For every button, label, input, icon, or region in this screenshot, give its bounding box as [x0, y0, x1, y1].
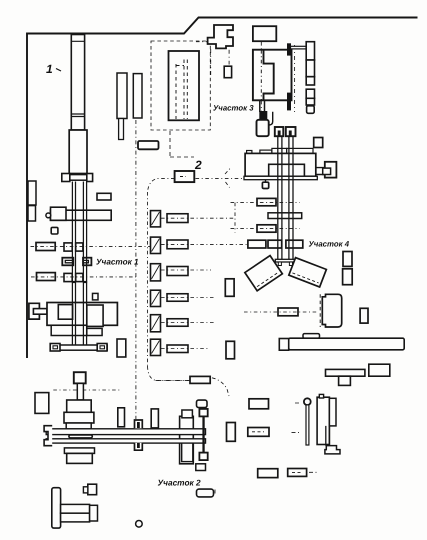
machine station row5 pallet: [167, 319, 188, 327]
drill press tier1: [67, 400, 92, 412]
small square node: [314, 138, 323, 148]
rack column cell 1: [306, 42, 314, 60]
bottom pallet row a: [248, 240, 266, 248]
slot pad between bars: [69, 435, 92, 438]
frame horizontal rail upper: [61, 504, 90, 513]
T-bar bracket right: [97, 344, 107, 352]
drill press tier4: [64, 448, 94, 454]
drill press stem: [77, 383, 83, 400]
svg-text:1: 1: [46, 62, 53, 76]
rack column cell 5: [306, 98, 314, 105]
dashed line right of machine U3: [294, 45, 296, 112]
T work table: [326, 369, 365, 376]
small square below arm: [51, 227, 58, 234]
dashed C-zone right of rails: [231, 203, 300, 233]
central machine block bump 1: [247, 151, 252, 154]
machine station row6 vertical unit: [151, 339, 161, 355]
frame end block: [90, 505, 98, 521]
svg-text:Участок 1: Участок 1: [96, 258, 139, 267]
dashed slots inside storage rect: [176, 60, 187, 120]
bump 3: [272, 148, 287, 153]
tilted machine left: [245, 256, 283, 291]
conveyor bench bottom bar: [46, 439, 205, 443]
dashed zone border section 3: [151, 41, 210, 130]
svg-text:Участок 3: Участок 3: [213, 104, 254, 113]
flange bar: [62, 175, 92, 181]
rail end crossbar: [275, 259, 295, 262]
small square row2 left of rail: [64, 273, 72, 281]
stand machine leg: [326, 426, 330, 446]
wide transfer bar on rails: [268, 213, 302, 219]
T-bar bracket left: [50, 344, 60, 352]
row dashes left wall machines: [31, 247, 151, 277]
storage rack rect section 3: [169, 51, 200, 120]
left rail pair lines: [72, 182, 86, 346]
stand machine foot: [325, 446, 340, 454]
welding frame vertical bar: [52, 488, 61, 528]
route dash below plug: [211, 49, 229, 77]
wall plug bracket: [29, 303, 40, 319]
actuator top bracket: [199, 409, 207, 417]
pallet rect bottom row a: [258, 469, 278, 478]
machine station row2 pallet: [167, 240, 188, 249]
rack column cell 3: [306, 77, 314, 85]
machine station row6 pallet: [167, 345, 188, 353]
big machine lower step: [87, 328, 102, 335]
route from station 2 down to section 2: [148, 178, 191, 380]
frame horizontal rail lower: [61, 513, 90, 522]
end machine tall body: [180, 416, 194, 464]
plug node on wall: [208, 25, 233, 48]
route into cassette machine: [244, 311, 317, 313]
pallet rect on route: [190, 376, 210, 383]
dash through drill machine: [53, 389, 120, 391]
small cabinet right of drill: [118, 408, 125, 427]
clamp tab top: [287, 43, 291, 55]
stand machine side panel: [329, 398, 336, 426]
pallet rect row2 left: [37, 273, 56, 281]
hook line: [269, 112, 273, 125]
vertical strip right: [133, 74, 142, 118]
central machine base bar: [244, 176, 317, 179]
machine station row3 vertical unit: [151, 264, 161, 281]
stand machine top bump: [319, 394, 323, 398]
arm machine bar: [51, 210, 112, 220]
rail joint marks: [72, 281, 76, 283]
machine station row2 vertical unit: [151, 237, 161, 253]
actuator rod: [202, 416, 204, 452]
cabinet left of pillar: [227, 423, 236, 442]
long centre dash-dot line left area: [135, 120, 137, 419]
machine station row5 vertical unit: [151, 315, 161, 332]
machine station row1 pallet: [167, 214, 188, 223]
neck below machine U3: [260, 100, 265, 112]
bottom pallet row b: [268, 240, 282, 248]
clamp above bar: [135, 420, 143, 428]
pallet on route to cassette: [278, 308, 298, 316]
flange cap right: [87, 174, 93, 182]
square row1 between rails: [76, 243, 83, 251]
arm machine nub: [46, 213, 51, 218]
pendant square below machine: [265, 180, 267, 183]
cassette machine: [322, 294, 341, 327]
row route dashes left column: [161, 218, 247, 348]
bottom pallet row c: [286, 240, 303, 248]
pillar with ball head: [304, 398, 311, 405]
bump 2: [260, 150, 272, 154]
buffer rect top left: [138, 141, 159, 149]
machine station row1 vertical unit: [151, 211, 161, 227]
pallet rect pair left column: [225, 279, 234, 297]
machine station row4 pallet: [167, 294, 188, 302]
actuator bottom bracket: [199, 453, 207, 461]
cabinet right of T-bar: [117, 339, 126, 357]
central machine body: [245, 153, 316, 176]
flange cap left: [62, 174, 70, 182]
centre line overlay on machine U3: [260, 50, 262, 100]
drill press top square: [74, 372, 86, 383]
clamp tab bottom: [287, 93, 291, 111]
machine U3 top rect: [253, 26, 276, 41]
strip extension: [119, 119, 124, 140]
svg-text:Участок 2: Участок 2: [158, 478, 202, 488]
floor circle mark: [136, 521, 143, 528]
conveyor 1 upper column: [71, 35, 84, 131]
rack column cell 6: [307, 106, 315, 114]
wall-side cabinet lower: [28, 206, 36, 221]
machine U3 inner step: [264, 50, 274, 101]
small square above machine: [93, 293, 99, 300]
machine station row4 vertical unit: [151, 290, 161, 306]
arm machine head block: [51, 207, 67, 220]
big machine inner rect A: [58, 305, 72, 320]
bench left cap: [279, 339, 288, 351]
bump 4: [287, 148, 313, 153]
stand machine tall body: [317, 397, 329, 444]
machine station row3 pallet: [167, 267, 188, 276]
drill press tier3: [66, 423, 91, 429]
machine U3 body: [253, 50, 292, 101]
central machine inner rect: [269, 164, 305, 176]
centre line through machine U3: [260, 42, 262, 130]
pallet row right 1: [257, 198, 276, 205]
pallet row right 2: [257, 225, 276, 232]
rail head right: [286, 127, 296, 136]
rounded rect above: [197, 400, 208, 407]
link bar to rack column: [291, 46, 307, 49]
clamp below bar: [135, 443, 143, 450]
route dash bottom centre: [156, 378, 230, 396]
central rail pair lines: [278, 136, 293, 259]
rect above arm: [97, 193, 111, 200]
pallet rect above pillar: [249, 399, 269, 409]
rail head left: [275, 127, 284, 136]
svg-text:Участок 4: Участок 4: [309, 240, 350, 249]
square row1 left of rail: [64, 243, 72, 251]
pad on long bench: [303, 334, 320, 339]
rounded pallet right: [197, 489, 214, 497]
big machine lower tier: [51, 325, 87, 335]
drill press tier5: [67, 453, 93, 463]
bench left bracket: [44, 426, 52, 446]
plug connector right: [316, 168, 325, 175]
pallet rect row1 left: [36, 243, 55, 251]
big machine inner rect B: [87, 305, 103, 326]
rail base T-bar: [51, 345, 107, 350]
small rect pair right: [343, 252, 352, 267]
clamp pair on rails: [62, 258, 73, 266]
end machine inner lower: [182, 442, 193, 461]
rail end stubs: [278, 262, 281, 266]
small cabinet right: [360, 308, 368, 323]
drill press tier2: [64, 412, 94, 423]
cabinet left wall side: [35, 393, 49, 414]
end machine top cap: [182, 410, 193, 418]
route station2 to central machine: [196, 169, 245, 188]
svg-text:2: 2: [194, 158, 202, 172]
small cabinet mid: [151, 409, 158, 428]
small buffer rect: [224, 66, 231, 78]
small rect below actuator: [196, 464, 206, 471]
frame top nub: [83, 487, 87, 493]
small square row2 between rails: [76, 273, 83, 281]
tilted machine right: [289, 258, 327, 287]
pallet rect with dash: [248, 428, 269, 437]
pallet rect bottom row b: [288, 469, 307, 477]
long bench bar: [289, 338, 405, 350]
rect right of T table: [369, 364, 390, 376]
rack column cell 4: [306, 89, 314, 98]
factory wall outline: [27, 18, 418, 359]
frame top square: [88, 484, 97, 495]
conveyor bench top bar: [46, 429, 205, 435]
big machine body: [47, 303, 117, 326]
route dash to plug node: [196, 41, 207, 43]
conveyor 1 lower wide column: [69, 130, 87, 174]
vertical strip left: [117, 73, 127, 119]
route dash L-link zone3: [170, 131, 194, 157]
buffer station below neck: [257, 120, 269, 136]
wall-side cabinet upper: [28, 181, 36, 205]
dash near pillar machine: [215, 403, 317, 496]
rack column cell 2: [306, 60, 314, 77]
station 2 pallet rect: [175, 171, 195, 182]
